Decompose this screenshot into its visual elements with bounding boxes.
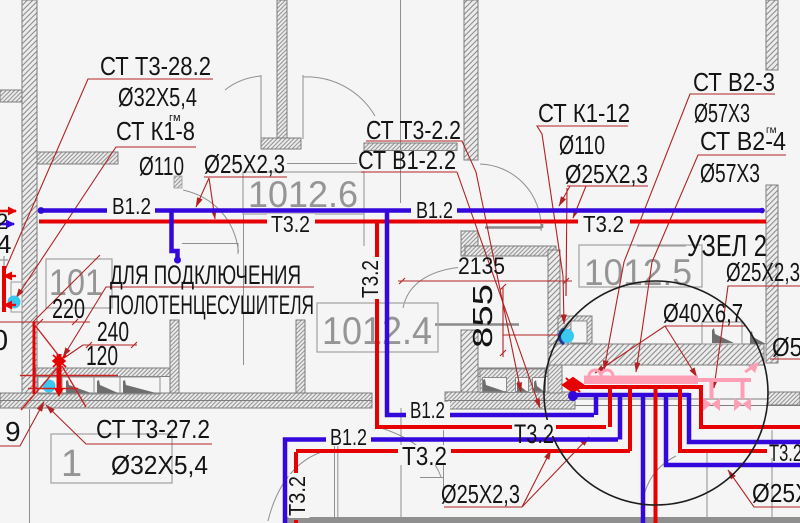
door arc corridor left <box>268 452 322 521</box>
wall bar under СТ Т3-2.2 <box>364 143 457 151</box>
room box 101 <box>46 259 112 308</box>
svg-text:Т3.2: Т3.2 <box>284 476 310 516</box>
leader Ø25Х2,3 bottom-center arrow2 <box>522 437 589 507</box>
pipe red drop 1 west1 <box>608 387 612 427</box>
svg-text:9: 9 <box>5 416 21 447</box>
pipe В1.2 continuation arrow left edge <box>0 223 14 226</box>
pipe left diag to knot <box>34 324 59 356</box>
svg-text:Ø25Х2,3: Ø25Х2,3 <box>752 478 800 508</box>
pipe left stack vertical <box>2 266 6 312</box>
wall top-center vertical <box>277 0 287 138</box>
room box 1012.5 <box>579 245 702 287</box>
mask В1.2 n1 <box>107 197 155 216</box>
node manifold blue dot <box>568 391 578 401</box>
svg-text:СТ Т3-2.2: СТ Т3-2.2 <box>366 115 461 145</box>
pipe pink collector bar <box>584 376 698 385</box>
leader Ø40Х6,7 arrow1 <box>595 326 665 373</box>
NODE2 <box>563 362 800 523</box>
pipe blue end corner east2 <box>689 393 800 442</box>
svg-text:Ø40Х6,7: Ø40Х6,7 <box>663 298 743 328</box>
K1 stack box left edge <box>11 282 22 312</box>
wall right vertical main <box>766 185 778 363</box>
label Т3.2 n5 right edge <box>767 446 800 458</box>
wall west of uzel opening <box>548 365 562 393</box>
pipe pink drop 1 <box>710 380 714 399</box>
svg-text:Т3.2: Т3.2 <box>514 419 554 449</box>
door arc in circle <box>641 456 676 509</box>
mask Т3.2 n4 <box>512 420 556 436</box>
pipe red drop 2 west2 <box>628 387 632 451</box>
leader Ø57 right <box>770 358 800 360</box>
CIRCLE <box>544 281 768 505</box>
wire wall line bottom left <box>29 409 31 523</box>
pipe Т3.2 west2 riser lower <box>294 520 298 523</box>
wall corridor band center <box>445 392 575 409</box>
svg-text:Ø57Х: Ø57Х <box>772 332 800 362</box>
LEFTNODE <box>0 266 118 410</box>
node towel riser tip <box>174 257 181 264</box>
node left knot diamond <box>53 355 66 367</box>
svg-text:Ø57Х3: Ø57Х3 <box>694 98 750 128</box>
wall bath-right vertical <box>548 250 560 345</box>
pipe manifold Т3 line <box>570 385 701 389</box>
svg-text:4: 4 <box>0 229 11 259</box>
wall corridor band east edge lines <box>575 392 800 406</box>
leader СТ В2-4 <box>636 155 786 372</box>
leader Ø25Х2,3 top-left underline <box>204 176 287 178</box>
dim line 2135 <box>398 276 572 296</box>
pipe left riser along wall <box>33 322 36 394</box>
pipe left knot vertical <box>57 354 62 390</box>
pipe left diag knot down-left <box>21 366 59 410</box>
svg-text:Ø57Х3: Ø57Х3 <box>700 158 760 188</box>
svg-text:Т3.2: Т3.2 <box>583 211 624 237</box>
leader СТ Т3-2.2 <box>366 141 521 392</box>
svg-text:Ø25Х2,3: Ø25Х2,3 <box>726 257 800 287</box>
pipe pink drop 2 <box>741 380 745 399</box>
leader Ø25Х2,3 bottom-center arrow1 <box>522 450 551 507</box>
door frame left of top-center door <box>260 75 262 139</box>
CYANS <box>8 296 575 393</box>
leader СТ К1-12 <box>537 126 628 324</box>
pipe left diag knot down-right <box>62 366 86 407</box>
svg-text:220: 220 <box>52 293 85 324</box>
wire wall line x772 <box>771 430 773 523</box>
leader 240 to knot <box>64 345 83 358</box>
marker plus top-left <box>0 256 8 266</box>
mask Т3.2 rotated riser B <box>362 257 381 299</box>
fixture box node top <box>702 322 742 344</box>
door arc room 1012.5 <box>403 268 458 309</box>
svg-text:Ø110: Ø110 <box>139 151 184 181</box>
wall K1 niche hatch <box>558 316 592 344</box>
wall line below 1012.6 box right <box>363 214 365 246</box>
connector line label to label <box>287 163 357 165</box>
svg-text:Ø25Х2,3: Ø25Х2,3 <box>441 479 520 509</box>
leader СТ В2-3 <box>604 94 775 370</box>
pipe В1.2 west2 run <box>285 440 618 523</box>
pipe Т3.2 riser B upper <box>375 221 379 259</box>
ledge gray thick under red main <box>485 224 542 228</box>
leader Ø40Х6,7 arrow2 <box>665 326 697 377</box>
door arc top-center left <box>225 76 261 90</box>
pipe left stub arrow 2 <box>4 304 16 306</box>
wall right vertical top <box>766 0 778 70</box>
svg-text:0: 0 <box>0 325 8 357</box>
fixture row left bath frame <box>38 377 160 394</box>
svg-text:ДЛЯ ПОДКЛЮЧЕНИЯ: ДЛЯ ПОДКЛЮЧЕНИЯ <box>110 260 301 290</box>
svg-text:В1.2: В1.2 <box>410 397 445 423</box>
svg-text:ПОЛОТЕНЦЕСУШИТЕЛЯ: ПОЛОТЕНЦЕСУШИТЕЛЯ <box>108 290 314 320</box>
svg-text:Т3.2: Т3.2 <box>402 441 447 471</box>
wall bar left mid <box>37 152 118 164</box>
stack К1-12 crescent <box>560 329 565 344</box>
svg-text:СТ В2-4: СТ В2-4 <box>700 126 786 156</box>
node В1.2 main start dot <box>38 207 45 214</box>
leader СТ Т3-27.2 <box>46 405 212 444</box>
svg-text:СТ Т3-28.2: СТ Т3-28.2 <box>100 51 211 81</box>
room box 1012.6 <box>243 172 364 214</box>
mask Т3.2 n2 <box>578 214 630 233</box>
mask Т3.2 n1 <box>267 214 315 234</box>
svg-text:Ø25Х2,3: Ø25Х2,3 <box>565 159 648 189</box>
leader Ø25Х bottom-right <box>728 470 800 507</box>
svg-text:СТ К1-8: СТ К1-8 <box>116 116 195 146</box>
K1 stack box <box>571 321 587 343</box>
dim line 240 <box>83 342 137 348</box>
svg-text:СТ К1-12: СТ К1-12 <box>538 98 630 128</box>
wall bath north band <box>465 246 556 256</box>
pipe В1.2 main <box>39 208 763 213</box>
pipe red end corner east1 <box>701 385 800 427</box>
svg-text:120: 120 <box>86 340 118 371</box>
pipe blue drop 2 west2 <box>618 395 623 440</box>
svg-text:В1.2: В1.2 <box>416 197 453 223</box>
mask В1.2 n2 <box>411 200 457 219</box>
svg-text:1012.5: 1012.5 <box>584 252 692 293</box>
leader diag misc left <box>33 255 100 322</box>
svg-text:Т3.2: Т3.2 <box>357 260 383 298</box>
leader СТ Т3-28.2 <box>5 79 213 270</box>
room box 1 <box>51 434 172 483</box>
svg-text:2135: 2135 <box>458 253 505 280</box>
wall left vertical <box>22 0 37 396</box>
svg-text:Ø110: Ø110 <box>559 130 605 160</box>
wall top-center foot <box>261 138 301 149</box>
ROOMS <box>46 172 702 485</box>
wall strip left bath inner 1 <box>170 320 179 393</box>
leader Ø40Х6,7 underline <box>665 325 745 327</box>
svg-text:Ø32Х5,4: Ø32Х5,4 <box>118 82 197 112</box>
svg-text:855: 855 <box>467 284 498 348</box>
pipe red drop 3 down <box>654 387 658 523</box>
pipe towel riser from В1.2 <box>172 210 178 261</box>
door arc hall center <box>183 190 239 252</box>
mask Т3.2 rotated riser D <box>289 474 310 518</box>
leader СТ К1-8 <box>16 147 196 298</box>
pipe red drop 4 east2 <box>680 387 800 451</box>
node left knot arrow down <box>54 388 64 397</box>
leader 9 label <box>0 402 44 446</box>
leader Ø25Х2,3 far-right <box>714 286 800 388</box>
fixture triangle node 2 <box>750 331 766 344</box>
leader gray uzel2 <box>637 245 686 247</box>
mask Т3.2 n3 <box>398 445 451 465</box>
svg-text:В1.2: В1.2 <box>330 424 367 450</box>
wire wall line x443 <box>420 430 444 492</box>
svg-text:Т3.2: Т3.2 <box>769 440 800 467</box>
wall bottom band <box>283 517 800 523</box>
stack К1-12 node <box>560 329 574 343</box>
leader Ø25Х2,3 bottom-center underline <box>444 506 522 508</box>
pipe pink line right <box>698 378 751 382</box>
pipe Т3.2 main <box>39 220 766 224</box>
door frame right of top-center door <box>302 75 304 139</box>
wall niche band right bath <box>478 368 548 377</box>
node detail circle УЗЕЛ 2 <box>544 281 768 505</box>
dim line 220 <box>0 319 90 325</box>
leader СТ В1-2.2 <box>361 172 540 408</box>
pipe left horizontal y375 <box>20 375 118 377</box>
wall bath-left pier <box>461 231 478 256</box>
svg-text:СТ Т3-27.2: СТ Т3-27.2 <box>96 414 210 444</box>
wall top vertical x464 <box>464 0 478 160</box>
stack К1 left bath <box>43 380 56 393</box>
wire thin partition x400 <box>400 0 402 203</box>
pipe pink hose bumps <box>589 370 613 376</box>
valve pink 1 <box>703 398 720 411</box>
door arc corridor right <box>378 427 441 477</box>
svg-text:Ø32Х5,4: Ø32Х5,4 <box>111 450 208 480</box>
wall node band <box>548 344 764 365</box>
WALLS <box>0 0 800 409</box>
door arc bath upper <box>480 164 541 231</box>
pipe Т3.2 west2 run upper <box>294 452 298 473</box>
wall corridor band west <box>0 393 372 408</box>
marker hatch square 3 <box>174 176 182 188</box>
node manifold red knot <box>563 378 583 392</box>
dim line 855 <box>500 284 566 357</box>
leader Ø25Х2,3 top-right underline <box>567 185 648 187</box>
niche ledge hall <box>182 243 238 254</box>
pipe manifold В1 line <box>575 393 689 398</box>
wire wall double line x335 <box>335 444 338 523</box>
wall niche band left bath <box>36 368 173 377</box>
wire wall line x401 <box>400 408 402 523</box>
fixture triangles right bath <box>483 379 544 392</box>
wall line below 1012.6 box left <box>243 214 245 365</box>
fixture triangles left bath <box>66 380 156 393</box>
leader Ø25Х2,3 top-left arrow2 <box>209 178 215 219</box>
node В1.2 main end dot <box>759 208 765 214</box>
mask В1.2 n3 <box>326 427 371 446</box>
svg-text:Ø25Х2,3: Ø25Х2,3 <box>204 149 285 179</box>
wall edge thick 1012.4 <box>435 323 519 326</box>
leader Ø25Х2,3 top-right arrow1 <box>559 186 570 206</box>
fixture block right bath <box>480 369 545 393</box>
pipe Т3.2 continuation arrow left edge <box>0 210 16 213</box>
door arc top-center right <box>303 77 375 116</box>
pipe blue drop 4 east3 <box>666 395 800 465</box>
pipe left horizontal y388 <box>28 388 78 390</box>
pipe Т3.2 west2 horizontal <box>296 449 630 453</box>
pipe Т3.2 riser B lower + east turn <box>377 297 606 427</box>
node pink arrowhead <box>748 362 759 373</box>
leader Ø25Х2,3 top-right arrow2 <box>573 186 586 218</box>
leader Ø110-2 <box>566 188 567 296</box>
svg-text:СТ В2-3: СТ В2-3 <box>693 67 775 97</box>
wire wall line x707 <box>706 453 708 523</box>
fixture triangle node 1 <box>712 328 734 343</box>
svg-text:В1.2: В1.2 <box>112 193 151 219</box>
wall bath-left lower <box>461 330 478 409</box>
stack К1 left edge <box>8 296 21 309</box>
room box 1012.4 <box>317 303 438 352</box>
pipe В1.2 riser C + east turn <box>387 210 594 415</box>
svg-text:Т3.2: Т3.2 <box>271 211 310 237</box>
wall strip left bath inner 2 <box>296 320 305 393</box>
pipe blue drop 1 west1 <box>594 395 599 415</box>
mask В1.2 n4 <box>406 402 450 420</box>
wall stub top-left <box>0 90 22 102</box>
svg-text:СТ В1-2.2: СТ В1-2.2 <box>358 145 456 175</box>
pipe left stub arrow 1 <box>4 275 16 277</box>
svg-text:1: 1 <box>61 443 82 485</box>
PIPES <box>0 207 766 523</box>
pipe pink arrow right end <box>745 364 757 372</box>
leader ДЛЯ подключения <box>63 287 314 357</box>
DIMS <box>0 276 572 357</box>
leader Ø25Х2,3 top-left arrow1 <box>196 178 209 207</box>
valve pink 2 <box>734 398 751 411</box>
pipe blue drop 3 down <box>641 395 646 523</box>
